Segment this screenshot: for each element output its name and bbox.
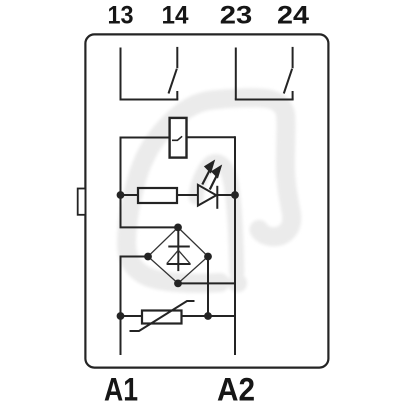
wire top left to coil	[121, 137, 170, 139]
wire left vertex to left vertical lower	[121, 257, 149, 356]
junction node bridge bottom	[174, 280, 182, 288]
bridge rectifier diamond	[148, 227, 208, 283]
bridge diode triangle sides	[167, 250, 190, 263]
wire coil to top right	[187, 136, 236, 138]
LED D1	[198, 185, 217, 209]
wire resistor row left	[121, 194, 139, 196]
contact 13-14 fixed stub	[176, 91, 178, 100]
LED emission arrow 2	[210, 166, 221, 190]
svg-text:14: 14	[162, 1, 189, 29]
wire LED to right	[217, 194, 235, 196]
wire varistor row right	[182, 315, 236, 317]
wire right vertex down to varistor row	[207, 257, 209, 317]
svg-text:A1: A1	[104, 371, 138, 407]
resistor R1	[138, 188, 177, 203]
wire left vertical upper	[121, 137, 179, 228]
contact NO 13-14 terminal 13 lead	[120, 48, 122, 100]
bridge internal diode	[167, 228, 191, 271]
junction node resistor-left	[117, 191, 125, 199]
wire varistor row left	[121, 315, 143, 317]
svg-text:13: 13	[108, 1, 134, 29]
wire resistor to LED	[177, 194, 198, 196]
module border outline	[85, 34, 328, 367]
contact 23-24 bottom wire	[235, 99, 294, 101]
junction node LED-right	[231, 191, 239, 199]
relay coil K1	[170, 118, 187, 158]
contact 23-24 movable blade	[284, 69, 292, 94]
varistor RV1	[130, 301, 195, 331]
contact 13-14 terminal 14 lead	[176, 47, 178, 68]
junction node bridge top	[174, 224, 182, 232]
junction node varistor-right	[204, 312, 212, 320]
junction node varistor-left	[117, 312, 125, 320]
svg-text:23: 23	[220, 1, 253, 29]
contact 23-24 fixed stub	[292, 91, 294, 100]
contact 23-24 terminal 24 lead	[292, 47, 294, 68]
left mounting tab	[78, 189, 86, 215]
svg-text:A2: A2	[217, 371, 255, 407]
contact 13-14 movable blade	[169, 69, 177, 94]
contact NO 23-24 terminal 23 lead	[235, 48, 237, 100]
wire right vertical	[234, 136, 236, 355]
svg-text:24: 24	[277, 1, 309, 29]
junction node bridge right	[204, 253, 212, 261]
LED emission arrow 1	[202, 161, 214, 185]
contact 13-14 bottom wire	[120, 99, 179, 101]
junction node bridge left	[144, 253, 152, 261]
wire bottom vertex to right vertical	[178, 282, 235, 284]
